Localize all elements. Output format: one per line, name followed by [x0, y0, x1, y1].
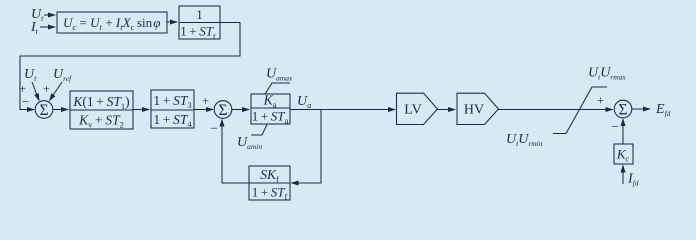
block transducer Uc = Ut + It Xc sin phi — [57, 12, 167, 33]
svg-text:Ifd: Ifd — [627, 172, 639, 188]
block amplifier Ka/(1+STa) — [251, 93, 290, 126]
wire It arrow into transducer — [40, 26, 55, 28]
block stabilizer SKf/(1+STf) — [249, 166, 290, 202]
svg-text:−: − — [211, 121, 218, 136]
wire lead-lag to summing junction S2 — [194, 109, 213, 111]
svg-text:Ua: Ua — [297, 94, 311, 110]
svg-text:Kc: Kc — [616, 147, 630, 164]
limiter slope symbol on exciter output — [553, 87, 607, 134]
svg-text:−: − — [22, 94, 29, 109]
wire S2 to amplifier block — [232, 109, 250, 111]
svg-text:1 + ST3: 1 + ST3 — [153, 93, 191, 110]
svg-text:Efd: Efd — [655, 102, 671, 118]
svg-text:−: − — [612, 119, 619, 134]
wire Uref diagonal arrow into S1 — [50, 82, 63, 101]
wire S1 to regulator block — [53, 109, 69, 111]
svg-text:+: + — [202, 94, 209, 108]
svg-text:Ka: Ka — [263, 93, 277, 110]
wire Ut diagonal arrow into S1 — [32, 82, 39, 101]
svg-text:Σ: Σ — [39, 102, 48, 119]
summing junction S2 — [214, 101, 232, 119]
block Kc — [614, 144, 633, 164]
wire stabilizer back up to S2 — [222, 120, 249, 184]
wire HV gate to summing junction S3 — [499, 109, 613, 111]
block regulator K(1+ST1)/(Kv+ST2) — [70, 91, 133, 130]
svg-text:HV: HV — [464, 103, 484, 118]
wire Ifd input into Kc — [622, 166, 624, 185]
svg-text:1 + STf: 1 + STf — [252, 185, 288, 202]
svg-text:Ut: Ut — [24, 67, 37, 83]
summing junction S3 — [614, 100, 632, 118]
svg-text:It: It — [30, 20, 39, 36]
svg-text:K(1 + ST1): K(1 + ST1) — [72, 94, 129, 111]
svg-text:1 + STr: 1 + STr — [180, 24, 216, 41]
svg-text:Kv + ST2: Kv + ST2 — [78, 113, 124, 130]
wire transducer to filter — [167, 21, 177, 23]
wire Kc block up to S3 — [622, 119, 624, 144]
svg-text:Uamax: Uamax — [266, 67, 293, 83]
wire regulator to lead-lag block — [133, 109, 149, 111]
svg-text:+: + — [43, 82, 50, 96]
svg-text:Uc = Ut + ItXc sin φ: Uc = Ut + ItXc sin φ — [63, 15, 160, 32]
HV gate — [457, 93, 499, 124]
wire LV gate to HV gate — [438, 109, 456, 111]
block filter 1/(1+STr) — [179, 6, 220, 41]
svg-text:SKf: SKf — [260, 167, 279, 184]
svg-text:1: 1 — [196, 7, 203, 22]
svg-text:1 + STa: 1 + STa — [252, 109, 289, 126]
limiter upper tick at amplifier — [265, 83, 290, 94]
svg-text:1 + ST4: 1 + ST4 — [153, 112, 192, 129]
limiter lower tick at amplifier — [251, 125, 267, 136]
svg-text:UtUrmax: UtUrmax — [588, 66, 626, 82]
svg-text:+: + — [597, 94, 604, 108]
svg-text:Σ: Σ — [618, 102, 627, 119]
block lead-lag (1+ST3)/(1+ST4) — [151, 90, 194, 129]
wire amplifier to LV gate — [290, 109, 395, 111]
wire Ut arrow into transducer — [44, 14, 55, 16]
svg-text:Σ: Σ — [218, 102, 227, 119]
wire feedback from filter around to summing junction S1 — [20, 23, 240, 110]
summing junction S1 — [35, 101, 53, 119]
svg-text:LV: LV — [404, 103, 421, 118]
svg-text:Uamin: Uamin — [237, 135, 262, 151]
svg-text:Uref: Uref — [53, 67, 72, 83]
wire feedback tap down to stabilizer block — [292, 110, 322, 184]
wire S3 output to Efd — [632, 108, 651, 110]
LV gate — [397, 93, 438, 124]
svg-text:UtUrmin: UtUrmin — [506, 132, 543, 148]
